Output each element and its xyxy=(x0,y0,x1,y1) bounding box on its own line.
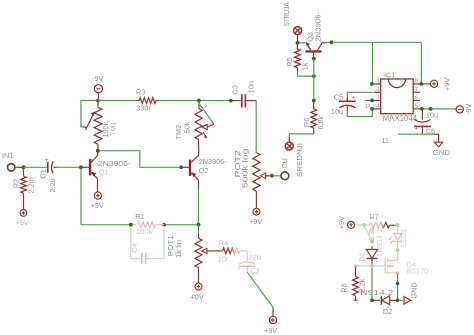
svg-text:+: + xyxy=(237,266,241,273)
svg-text:STRUJA: STRUJA xyxy=(282,2,291,26)
wire -9V rail and TM1 wiper branch xyxy=(81,101,137,127)
transistor Q2 2N3906 xyxy=(183,149,228,189)
supply -9V at top rail xyxy=(92,74,103,99)
wire LED1 to Q4 drain (ghosted) xyxy=(397,252,399,261)
connector pad +9V (bottom right) xyxy=(337,216,355,229)
connector pad STRUJA xyxy=(282,2,302,41)
node C3 left junction xyxy=(229,99,233,103)
svg-text:2: 2 xyxy=(376,87,379,93)
IC1 pin 3 xyxy=(374,95,381,101)
transistor Q4 BS170 (ghosted) xyxy=(385,259,428,276)
diode D2 1N914 xyxy=(360,288,396,316)
node ghost junction R8 top xyxy=(354,264,358,268)
svg-text:50k: 50k xyxy=(182,121,191,133)
transistor Q1 2N3906 xyxy=(83,152,132,192)
wire node to C1 xyxy=(24,166,48,168)
IC1 pin 5 xyxy=(413,104,420,110)
trimmer TM1 100k xyxy=(83,101,117,150)
node rail left junction xyxy=(330,40,334,44)
supply +9V at IC1 pin 8 xyxy=(423,78,452,91)
svg-text:7: 7 xyxy=(415,87,418,93)
resistor R3 330r xyxy=(136,88,159,113)
svg-text:MAX1044: MAX1044 xyxy=(383,114,418,123)
connector pad CU xyxy=(280,158,289,180)
svg-text:330r: 330r xyxy=(136,104,151,113)
svg-text:10n: 10n xyxy=(246,81,255,93)
svg-text:1N914-1: 1N914-1 xyxy=(375,228,384,256)
resistor R7 (half ghosted) xyxy=(366,213,395,242)
node Q1 base junction xyxy=(79,165,83,169)
svg-text:C4: C4 xyxy=(130,243,139,252)
node D1 top junction xyxy=(370,240,374,244)
wire top rail to IC1 xyxy=(331,42,421,82)
svg-text:+9V: +9V xyxy=(249,217,262,226)
svg-text:R6: R6 xyxy=(302,118,311,127)
svg-text:1: 1 xyxy=(376,79,379,85)
IC1 pin 4 xyxy=(374,104,381,110)
svg-text:5: 5 xyxy=(415,104,418,110)
svg-text:-9V: -9V xyxy=(92,74,103,83)
svg-text:11: 11 xyxy=(365,104,371,110)
svg-text:2.2m: 2.2m xyxy=(27,177,36,193)
transistor Q3 2N3906 xyxy=(305,11,326,57)
svg-text:IN1: IN1 xyxy=(2,151,13,160)
svg-text:1k lin: 1k lin xyxy=(174,240,183,258)
wire +9V pad to R7 (ghosted) xyxy=(355,224,363,226)
supply -9V at IC1 pin 5 xyxy=(456,104,473,115)
wire D1 top stub (ghosted) xyxy=(371,243,373,247)
node ghost junction gate xyxy=(370,264,374,268)
connector pad IN1 xyxy=(2,151,15,171)
svg-text:10r: 10r xyxy=(218,254,229,263)
net label 11 at pin 4 xyxy=(365,104,371,110)
svg-text:LED1: LED1 xyxy=(399,229,408,247)
svg-text:IC1: IC1 xyxy=(384,70,395,79)
wire IN1 pad to node xyxy=(15,166,22,168)
svg-text:500k log: 500k log xyxy=(241,149,250,189)
svg-text:8: 8 xyxy=(415,79,418,85)
svg-text:Q2: Q2 xyxy=(199,166,209,175)
wire C3 down to POT2 xyxy=(255,101,257,153)
wire C5 top to pin 2 xyxy=(347,92,373,97)
svg-text:+: + xyxy=(45,157,49,164)
node pin5 junction a xyxy=(420,107,424,111)
IC1 pin 6 xyxy=(413,95,420,101)
resistor R4 10r (half ghosted) xyxy=(212,238,247,263)
IC1 pin 1 xyxy=(374,79,381,85)
svg-text:2.2u: 2.2u xyxy=(48,178,57,192)
wire SREDNJI to R6 xyxy=(289,128,313,142)
wire R7 to LED1 xyxy=(394,224,396,226)
svg-text:+9V: +9V xyxy=(91,201,104,210)
wire to LED1 (ghosted) xyxy=(397,226,399,233)
svg-text:GND: GND xyxy=(410,282,419,298)
svg-text:6.8k: 6.8k xyxy=(316,115,325,129)
supply +9V at POT2 bottom xyxy=(249,208,262,226)
wire pin 5 to -9V xyxy=(422,108,456,110)
svg-text:100k: 100k xyxy=(136,227,153,236)
wire R5 bottom link xyxy=(297,71,313,77)
svg-text:2N3906-: 2N3906- xyxy=(314,11,323,42)
svg-text:6: 6 xyxy=(415,95,418,101)
svg-text:R4: R4 xyxy=(219,238,228,247)
svg-text:10u: 10u xyxy=(331,107,343,116)
resistor R6 6.8k xyxy=(302,101,325,130)
wire base net down-left (to R1 net) xyxy=(81,169,130,225)
wire base net upper xyxy=(313,60,315,75)
svg-text:D1: D1 xyxy=(357,252,366,261)
wire Q4 source to ground rail xyxy=(397,275,399,300)
resistor R5 1k xyxy=(285,44,310,70)
wire C2 to +9V (diagonal) xyxy=(247,272,273,307)
IC1 pin 8 xyxy=(413,79,420,85)
node R1 left junction xyxy=(129,223,133,227)
svg-text:R7: R7 xyxy=(369,213,378,222)
svg-text:SREDNJI: SREDNJI xyxy=(295,143,304,177)
wire net 11 stub xyxy=(398,133,434,135)
wire R1 net xyxy=(131,224,197,226)
node D2 left junction xyxy=(370,298,374,302)
wire C5 bottom to pin 4 (net 11) xyxy=(347,110,372,116)
LED LED1 (ghosted) xyxy=(389,229,408,250)
capacitor C4 (ghosted) xyxy=(130,226,164,264)
wire wiper to CU pad xyxy=(273,175,280,177)
wire Q2 emitter down to POT1 net xyxy=(198,190,200,225)
capacitor C6 10u xyxy=(414,109,438,136)
resistor R2 xyxy=(12,169,36,210)
node R1-net / POT1 junction xyxy=(197,223,201,227)
svg-text:C1: C1 xyxy=(38,169,47,178)
wire gate line (ghosted) xyxy=(356,265,385,267)
svg-text:+9V: +9V xyxy=(264,326,277,335)
svg-text:-9V: -9V xyxy=(464,104,473,115)
diode D1 1N914 xyxy=(357,228,383,265)
node IC1 pin4 junction xyxy=(370,107,374,111)
svg-text:Q1: Q1 xyxy=(99,168,109,177)
wire collector net to Q2 base xyxy=(100,151,181,168)
node IC1 pin1 junction xyxy=(370,82,374,86)
capacitor C1 xyxy=(38,157,79,192)
svg-text:CU: CU xyxy=(280,158,289,169)
wire R3 to TM2 junction xyxy=(159,100,198,102)
node Q2 base junction xyxy=(179,165,183,169)
capacitor C2 22u (ghosted) xyxy=(237,251,261,276)
svg-text:R2: R2 xyxy=(12,179,21,188)
svg-text:C3: C3 xyxy=(230,85,239,94)
potentiometer POT2 500k log xyxy=(233,149,271,209)
node TM1 bottom / Q1 collector junction xyxy=(96,149,100,153)
node IC1 pin3 junction xyxy=(370,99,374,103)
IC1 pin 7 xyxy=(413,87,420,93)
node LED1 top junction xyxy=(396,223,400,227)
trimmer TM2 50k xyxy=(174,101,214,150)
wire D1 to bottom rail xyxy=(371,265,373,299)
IC1 pin 2 xyxy=(374,87,381,93)
node pin5 junction b xyxy=(429,107,433,111)
node ghost junction at R7 left xyxy=(362,223,366,227)
ground GND at D2 xyxy=(399,282,419,304)
capacitor C5 10u xyxy=(331,92,356,116)
svg-text:+9V: +9V xyxy=(443,78,452,91)
wire ghost diagonal +9V to D1 xyxy=(364,226,372,240)
node STRUJA junction xyxy=(296,41,300,45)
svg-text:+9V: +9V xyxy=(191,293,204,302)
svg-text:11: 11 xyxy=(381,136,389,145)
svg-text:1k: 1k xyxy=(301,62,310,70)
svg-text:R1: R1 xyxy=(135,212,144,221)
svg-text:10u: 10u xyxy=(426,110,438,119)
svg-text:2N3906-: 2N3906- xyxy=(199,157,228,166)
svg-text:R5: R5 xyxy=(285,57,294,66)
connector pad SREDNJI xyxy=(285,142,304,177)
op-amp IC1 MAX1044 body xyxy=(381,70,418,123)
wire STRUJA to Q3 emitter xyxy=(299,42,306,44)
node ground rail mid junction xyxy=(396,282,400,286)
svg-text:D2: D2 xyxy=(383,307,392,316)
supply +9V at C2 branch xyxy=(264,307,277,335)
svg-text:GND: GND xyxy=(433,148,451,157)
supply +9V at Q1 emitter xyxy=(91,192,104,210)
svg-text:C2: C2 xyxy=(250,267,259,276)
node -9V rail junction xyxy=(96,99,100,103)
svg-text:BS170: BS170 xyxy=(406,267,428,276)
node Q3 base junction xyxy=(312,57,316,61)
resistor R1 100k (ghosted) xyxy=(135,212,164,236)
svg-text:TM1: TM1 xyxy=(108,121,117,136)
capacitor C3 10n xyxy=(230,81,256,107)
node R1 right junction xyxy=(162,223,166,227)
potentiometer POT1 1k lin xyxy=(166,225,213,283)
svg-text:+: + xyxy=(415,125,419,132)
svg-text:R8: R8 xyxy=(340,283,349,292)
svg-text:R3: R3 xyxy=(136,88,145,97)
svg-text:+: + xyxy=(352,94,356,101)
wire stub at pin 3 xyxy=(365,99,371,101)
supply +9V at R2 bottom xyxy=(16,210,29,227)
net label 11 stray xyxy=(381,136,389,145)
svg-text:22u: 22u xyxy=(249,253,261,262)
node IN1/R2/C1 junction xyxy=(22,165,26,169)
svg-text:+9V: +9V xyxy=(16,218,29,227)
svg-text:+9V: +9V xyxy=(337,216,346,229)
node IC1 pin8 junction xyxy=(419,82,423,86)
node R6 top junction xyxy=(312,99,316,103)
svg-text:3: 3 xyxy=(376,95,379,101)
wire R6 top to Q3 base net xyxy=(313,77,315,99)
node LED1 bottom junction xyxy=(396,249,400,253)
node Q4 source junction xyxy=(396,272,400,276)
svg-text:N914.2: N914.2 xyxy=(360,288,393,297)
node D2 right junction xyxy=(396,298,400,302)
ground GND at C6 xyxy=(433,134,451,157)
node POT2 wiper junction xyxy=(270,174,274,178)
node TM2 top junction xyxy=(197,99,201,103)
node R5 branch junction xyxy=(312,74,316,78)
wire Q3 collector to rail xyxy=(327,41,331,43)
wire junction to C3 xyxy=(200,100,229,102)
svg-text:C5: C5 xyxy=(334,92,343,101)
resistor R8 2.2k xyxy=(340,267,367,300)
supply +9V at POT1 bottom xyxy=(191,283,204,302)
